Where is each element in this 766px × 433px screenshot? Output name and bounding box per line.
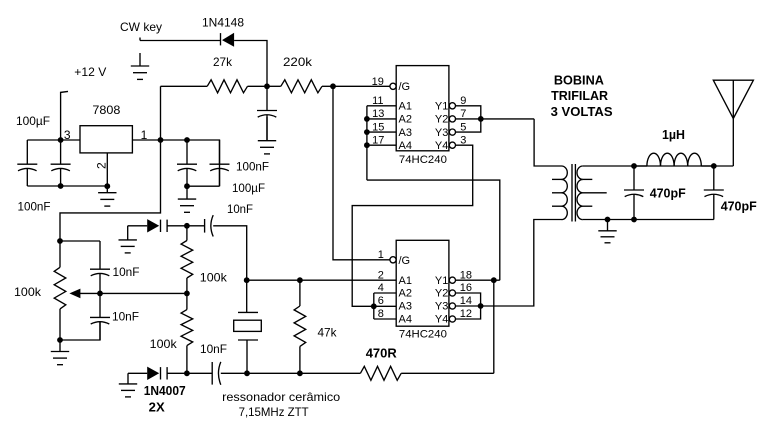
junction C11 top — [711, 163, 717, 169]
svg-text:2X: 2X — [149, 400, 165, 415]
U1 Y4 wire long feedback — [352, 145, 473, 306]
U1 Y3 bubble — [449, 129, 455, 135]
transformer T1 center tap tick — [583, 192, 607, 194]
junction 27k/220k node — [264, 83, 270, 89]
capacitor C8 10nF coupling top — [205, 215, 214, 236]
wire pin2 down — [106, 153, 108, 186]
resistor R6 47k — [294, 306, 306, 346]
svg-text:Y3: Y3 — [435, 301, 448, 313]
junction bus A2 — [364, 116, 370, 122]
wire output caps ground rail — [187, 185, 220, 187]
ground at varicap D3 — [119, 373, 137, 397]
wire 47k bottom lead — [299, 346, 301, 373]
wire pot bottom lead — [59, 309, 61, 340]
svg-text:100µF: 100µF — [232, 181, 265, 195]
svg-text:A4: A4 — [399, 314, 412, 326]
svg-text:TRIFILAR: TRIFILAR — [551, 88, 609, 103]
wire resonator to 47k bottom — [247, 372, 300, 374]
svg-text:100k: 100k — [150, 337, 178, 351]
resonator X1 plates and box — [234, 312, 262, 373]
wire 47k bottom to R8 — [300, 372, 361, 374]
wire /G drive down to U2 — [333, 86, 390, 259]
junction /G drive node — [330, 83, 336, 89]
svg-text:2: 2 — [95, 162, 109, 169]
varicap diode D3 — [147, 367, 167, 380]
svg-text:+12 V: +12 V — [74, 65, 106, 79]
capacitor C7 10nF — [90, 293, 110, 340]
junction C10 top — [631, 163, 637, 169]
svg-text:ressonador cerâmico: ressonador cerâmico — [222, 390, 340, 404]
wire 47k top lead — [299, 280, 301, 306]
junction bottom rail at divider — [184, 370, 190, 376]
svg-text:1N4148: 1N4148 — [202, 16, 244, 30]
svg-text:1µH: 1µH — [662, 127, 685, 142]
transformer T1 core — [572, 164, 575, 222]
ground at varicap D2 — [119, 226, 137, 253]
U2 Y2 wire — [456, 293, 481, 306]
wire R1 to junction — [248, 85, 268, 87]
U2 Y1 bubble — [449, 277, 455, 283]
svg-text:100k: 100k — [200, 271, 228, 285]
wire R4 to mid — [186, 278, 188, 293]
junction divider top node — [184, 223, 190, 229]
regulator U3 7808 box — [80, 126, 132, 153]
U1 Y3 wire — [456, 119, 481, 132]
wire +8V feed down-left — [60, 140, 161, 241]
junction U2 Y1 node — [491, 277, 497, 283]
wire D2 to divider top — [167, 225, 187, 227]
ground below C3 — [258, 117, 276, 154]
transformer T1 primary ticks — [552, 179, 562, 206]
capacitor C9 10nF series — [212, 362, 221, 385]
capacitor C11 470pF — [704, 166, 724, 220]
junction U2 outputs tie — [478, 303, 484, 309]
wire divider top to C8 — [187, 225, 205, 227]
wire R5 to bottom rail — [186, 346, 188, 374]
junction 47k top node — [297, 277, 303, 283]
U2 Y4 wire — [456, 306, 481, 319]
junction pin2/ground rail — [104, 183, 110, 189]
svg-text:/G: /G — [399, 81, 411, 93]
U2 Y1 wire — [456, 279, 500, 281]
wire secondary top rail — [583, 165, 734, 167]
wire tie to transformer primary top — [534, 119, 561, 166]
junction oscillator supply node — [57, 238, 63, 244]
svg-text:7808: 7808 — [92, 103, 120, 117]
junction resonator top node — [244, 277, 250, 283]
U2 Y3 bubble — [449, 303, 455, 309]
svg-text:100k: 100k — [14, 285, 42, 299]
junction output caps top — [184, 137, 190, 143]
transformer T1 secondary ticks — [583, 179, 593, 206]
transformer T1 primary winding — [562, 166, 568, 179]
svg-text:7,15MHz ZTT: 7,15MHz ZTT — [239, 405, 310, 419]
pot wiper arrow — [69, 289, 100, 299]
junction bottom rail resonator — [244, 370, 250, 376]
svg-text:6: 6 — [378, 295, 384, 307]
junction input rail at C2 — [58, 183, 64, 189]
junction +8V node — [158, 137, 164, 143]
svg-text:Y1: Y1 — [435, 101, 448, 113]
svg-text:3 VOLTAS: 3 VOLTAS — [551, 104, 613, 119]
svg-text:A3: A3 — [399, 127, 412, 139]
svg-text:74HC240: 74HC240 — [399, 154, 447, 166]
U2 /G bubble — [390, 257, 396, 263]
wire +8V node up to 27k row — [160, 86, 162, 140]
svg-text:47k: 47k — [318, 326, 338, 340]
wire to U1 /G pin — [333, 85, 390, 87]
junction secondary ground — [605, 217, 611, 223]
wire U2 Y1 down to R8 470R — [493, 280, 495, 373]
wire +8V rail to output caps — [161, 140, 220, 186]
wire C9 to resonator bottom — [221, 372, 247, 374]
wire L1 to C11 — [701, 165, 714, 167]
capacitor C1 100uF input — [17, 140, 37, 186]
wire R2 lead left — [267, 85, 281, 87]
U1 /G bubble — [390, 83, 396, 89]
wire antenna feed — [732, 119, 734, 167]
svg-text:A3: A3 — [399, 301, 412, 313]
capacitor C2 100nF input — [51, 140, 71, 186]
ground below CW key — [131, 53, 149, 79]
ground at secondary — [598, 220, 616, 243]
junction pot ground node — [57, 337, 63, 343]
svg-text:10nF: 10nF — [112, 310, 139, 324]
wire mid to R5 — [186, 293, 188, 309]
svg-text:/G: /G — [399, 255, 411, 267]
potentiometer R3 100k body — [54, 267, 66, 309]
antenna symbol — [713, 80, 753, 118]
inductor L1 1uH — [647, 153, 701, 166]
svg-text:A1: A1 — [399, 101, 412, 113]
wire input ground rail — [27, 185, 107, 187]
IC U2 74HC240 box — [396, 240, 449, 326]
svg-text:10nF: 10nF — [227, 202, 253, 216]
wire U1 bus to feedback corner — [367, 180, 500, 280]
U2 A4 stub — [374, 318, 396, 320]
svg-text:A2: A2 — [399, 114, 412, 126]
svg-text:27k: 27k — [213, 55, 233, 69]
wire bottom rail to C9 — [187, 372, 212, 374]
junction U1 outputs tie — [478, 116, 484, 122]
ground at output caps — [178, 186, 196, 212]
node CW_key input terminal tick — [139, 38, 141, 41]
wire D1 to corner down to 27k/220k junction — [234, 41, 267, 87]
junction bottom rail 47k — [297, 370, 303, 376]
wire pot top lead — [59, 241, 61, 267]
svg-text:10nF: 10nF — [113, 265, 140, 279]
U2 Y2 bubble — [449, 290, 455, 296]
resistor R4 100k upper — [181, 241, 193, 279]
U1 A4 stub — [367, 144, 396, 146]
capacitor C4 100nF output — [177, 140, 197, 186]
wire rail to L1 — [634, 165, 647, 167]
resonator X1 top lead — [246, 280, 248, 312]
ground at 7808 pin2 — [98, 186, 116, 206]
wire ground to D3 — [128, 372, 147, 374]
svg-text:470pF: 470pF — [721, 199, 757, 214]
U1 Y1 wire — [456, 106, 481, 119]
wire R4 top lead — [186, 226, 188, 241]
junction pin3 node — [58, 137, 64, 143]
wire D3 to bottom rail — [167, 372, 187, 374]
capacitor C3 at keying node — [257, 86, 277, 140]
wire pin3 to box — [61, 139, 80, 141]
svg-text:Y4: Y4 — [435, 314, 448, 326]
varicap diode D2 — [147, 219, 167, 232]
svg-text:1N4007: 1N4007 — [144, 383, 186, 398]
U1 Y2 bubble — [449, 116, 455, 122]
wire C8 to resonator node — [213, 226, 247, 280]
wire ground to D2 — [128, 225, 148, 227]
wire supply to C6 — [60, 240, 100, 242]
transformer T1 secondary winding — [577, 166, 583, 179]
U1 Y4 bubble — [449, 142, 455, 148]
svg-text:100nF: 100nF — [18, 200, 51, 214]
svg-text:470R: 470R — [366, 346, 398, 361]
ground at pot — [51, 340, 69, 365]
wire pot bottom to C7 bottom — [60, 322, 100, 340]
IC U1 74HC240 box — [396, 66, 449, 151]
capacitor C5 100uF output — [210, 140, 230, 186]
wire secondary bottom rail — [583, 219, 714, 221]
svg-text:Y2: Y2 — [435, 288, 448, 300]
wire tie to transformer primary bottom — [481, 220, 562, 307]
junction bus A3 — [364, 129, 370, 135]
svg-text:Y4: Y4 — [435, 140, 448, 152]
wire oscillator node to U2 A1 — [247, 279, 397, 281]
wire R8 to U2 Y1 corner — [401, 372, 494, 374]
svg-text:10nF: 10nF — [200, 342, 227, 356]
wire CW key to diode D1 — [140, 40, 221, 42]
svg-text:BOBINA: BOBINA — [554, 72, 605, 87]
U1 A1 stub — [367, 105, 396, 107]
svg-text:A1: A1 — [399, 275, 412, 287]
capacitor C6 10nF — [90, 241, 110, 293]
resistor R1 27k — [207, 80, 247, 93]
svg-text:Y3: Y3 — [435, 127, 448, 139]
svg-text:A4: A4 — [399, 140, 412, 152]
svg-text:470pF: 470pF — [650, 185, 686, 200]
junction bus A4 — [364, 142, 370, 148]
svg-text:220k: 220k — [283, 55, 313, 69]
capacitor C10 470pF — [624, 166, 644, 220]
U1 Y1 bubble — [449, 103, 455, 109]
U1 A2 stub — [367, 118, 396, 120]
U1 A3 stub — [367, 131, 396, 133]
svg-text:19: 19 — [372, 76, 384, 88]
svg-text:74HC240: 74HC240 — [399, 329, 447, 341]
svg-text:Y1: Y1 — [435, 275, 448, 287]
svg-text:CW key: CW key — [120, 20, 162, 34]
svg-text:A2: A2 — [399, 288, 412, 300]
junction wiper/C6/C7 node — [97, 291, 103, 297]
svg-text:100µF: 100µF — [16, 114, 50, 128]
diode D1 1N4148 (cathode bar + triangle) — [221, 33, 235, 47]
junction C10 bottom — [631, 217, 637, 223]
U1 Y2 wire — [456, 118, 535, 120]
U2 Y4 bubble — [449, 316, 455, 322]
U2 A3 stub — [374, 305, 396, 307]
U2 A2 stub — [374, 292, 396, 294]
junction U2 bus A3 — [371, 303, 377, 309]
wire input rail to caps — [27, 139, 60, 141]
U2 Y3 wire — [456, 305, 481, 307]
U1 input bus vertical — [366, 106, 368, 180]
junction output caps ground — [184, 183, 190, 189]
junction divider mid node — [184, 291, 190, 297]
svg-text:Y2: Y2 — [435, 114, 448, 126]
resistor R8 470R — [360, 366, 401, 380]
wire to R1 — [161, 85, 208, 87]
wire +12V stub down to pin3 node — [61, 91, 68, 140]
wire pin1 to +8V node — [132, 139, 160, 141]
wire wiper node to divider — [100, 292, 187, 294]
wire R2 to /G node — [322, 85, 333, 87]
svg-text:100nF: 100nF — [236, 160, 269, 174]
resistor R5 100k lower — [181, 310, 193, 346]
resistor R2 220k — [281, 80, 322, 93]
U2 input bus vertical — [373, 293, 375, 319]
